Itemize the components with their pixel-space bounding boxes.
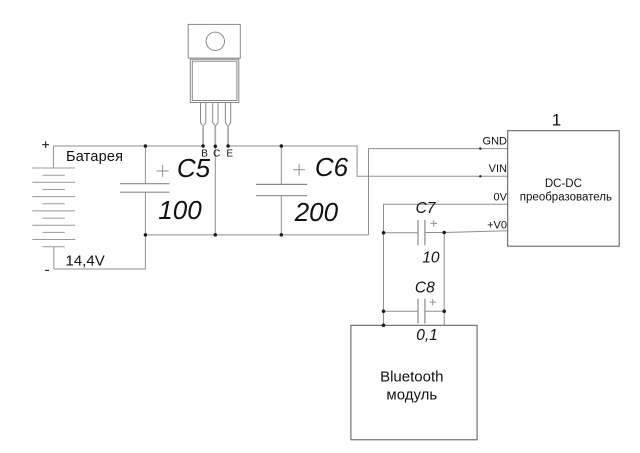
svg-text:Батарея: Батарея <box>66 149 123 165</box>
svg-text:C: C <box>213 149 220 160</box>
svg-text:200: 200 <box>294 197 339 227</box>
svg-text:14,4V: 14,4V <box>66 252 105 269</box>
svg-text:0V: 0V <box>494 191 508 203</box>
svg-text:+V0: +V0 <box>487 219 507 231</box>
svg-text:1: 1 <box>552 111 561 130</box>
svg-text:VIN: VIN <box>489 163 507 175</box>
svg-text:10: 10 <box>422 250 440 267</box>
svg-text:C7: C7 <box>416 200 437 217</box>
svg-text:DC-DC: DC-DC <box>545 178 582 190</box>
svg-text:E: E <box>226 149 233 160</box>
svg-text:C8: C8 <box>415 279 435 296</box>
svg-text:модуль: модуль <box>386 386 437 403</box>
svg-text:Bluetooth: Bluetooth <box>380 369 443 386</box>
svg-text:100: 100 <box>158 195 202 225</box>
svg-text:преобразователь: преобразователь <box>520 191 612 203</box>
svg-text:0,1: 0,1 <box>416 327 438 344</box>
svg-text:B: B <box>201 149 208 160</box>
svg-text:C6: C6 <box>315 152 349 182</box>
svg-text:GND: GND <box>483 135 508 147</box>
